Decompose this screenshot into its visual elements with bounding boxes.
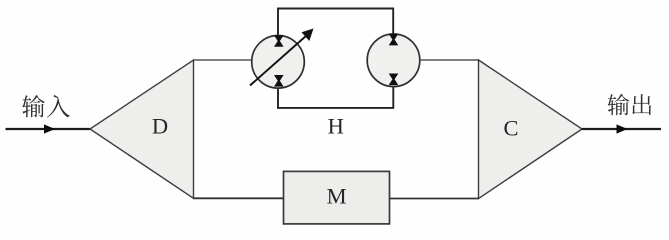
output wire <box>582 128 661 130</box>
label 输入 (input) <box>22 95 70 118</box>
svg-text:M: M <box>327 184 347 209</box>
mechanical path wire right <box>390 198 479 200</box>
input arrowhead <box>44 124 55 133</box>
motor bottom port triangles <box>389 74 399 86</box>
input wire <box>6 128 91 130</box>
svg-text:H: H <box>328 114 344 139</box>
pump top port triangles <box>274 35 284 47</box>
wire D to pump <box>194 59 253 61</box>
gearbox M <box>284 171 390 224</box>
svg-text:C: C <box>503 115 518 140</box>
variable displacement arrow <box>250 36 307 86</box>
svg-text:D: D <box>152 114 168 139</box>
label 输出 (output) <box>608 94 652 115</box>
wire motor to combiner <box>420 59 479 61</box>
pump bottom port triangles <box>274 75 284 87</box>
hydraulic loop top wire <box>278 9 393 37</box>
variable pump P <box>252 36 305 89</box>
output arrowhead <box>617 124 628 133</box>
motor top port triangles <box>389 34 399 46</box>
hydraulic loop bottom wire <box>278 86 393 108</box>
power divider D <box>90 60 194 198</box>
fixed motor <box>367 34 420 87</box>
mechanical path wire left <box>194 197 285 199</box>
power combiner C <box>479 60 583 199</box>
